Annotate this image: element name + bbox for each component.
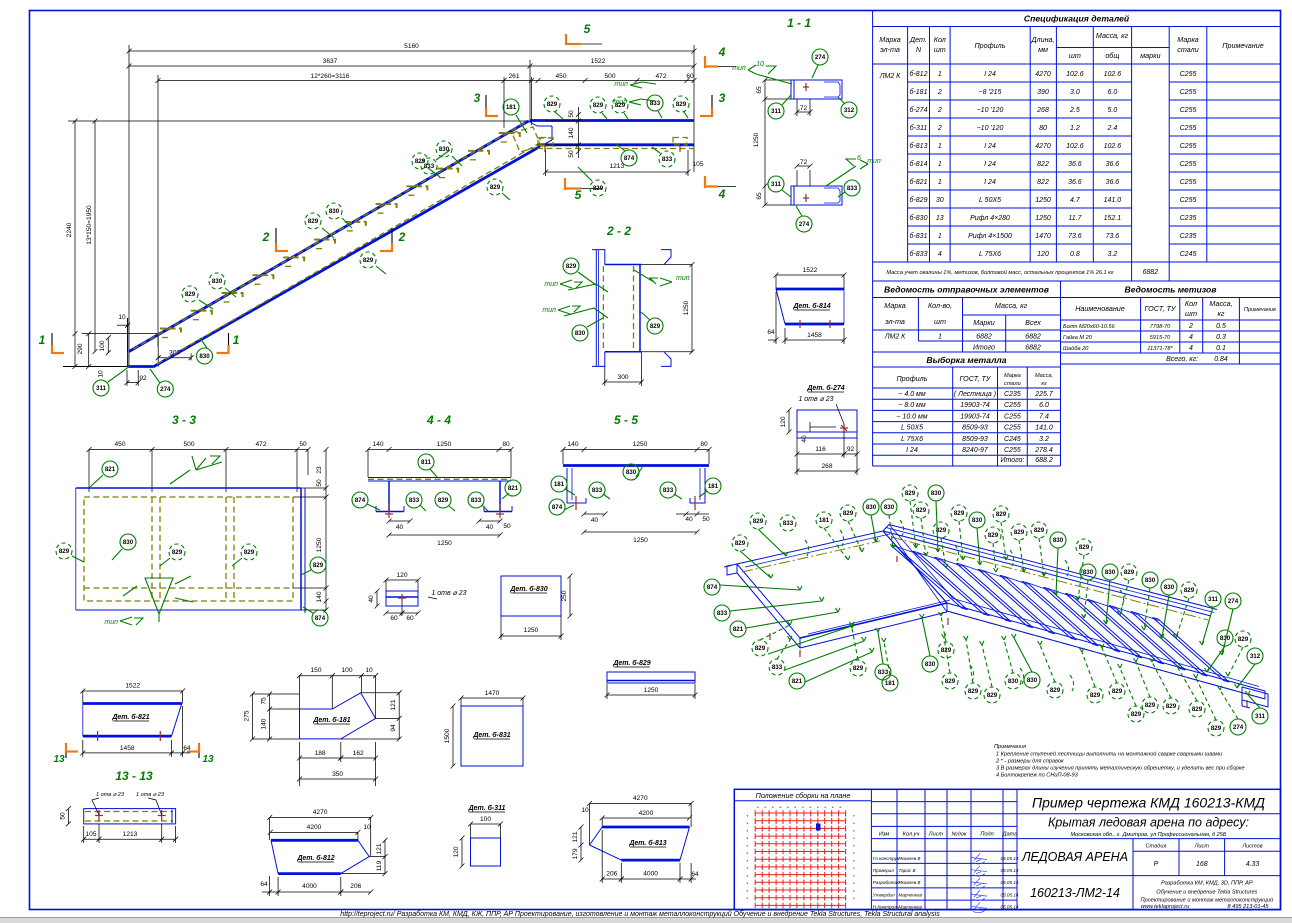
svg-text:829: 829	[438, 497, 449, 504]
title block right part: doc name	[1016, 789, 1018, 909]
svg-text:1250: 1250	[683, 300, 690, 315]
svg-text:829: 829	[676, 101, 687, 108]
svg-text:С255: С255	[1180, 107, 1197, 114]
svg-text:−10 ′120: −10 ′120	[977, 107, 1004, 114]
3d view detail circles	[704, 485, 1268, 736]
svg-text:829: 829	[987, 692, 998, 699]
svg-text:тип: тип	[867, 158, 881, 165]
svg-text:72: 72	[800, 105, 808, 112]
svg-text:3.0: 3.0	[1070, 89, 1080, 96]
detail b-311 plate	[453, 804, 506, 869]
svg-text:б-274: б-274	[910, 106, 928, 114]
svg-text:общ: общ	[1105, 51, 1119, 60]
svg-text:829: 829	[313, 562, 324, 569]
svg-text:60: 60	[686, 73, 694, 80]
b-821 section markers 13	[65, 743, 67, 758]
svg-text:40: 40	[368, 595, 375, 603]
svg-text:1250: 1250	[1035, 215, 1051, 222]
svg-text:4200: 4200	[639, 810, 654, 817]
svg-text:ЛМ2 К: ЛМ2 К	[884, 334, 906, 341]
svg-text:б-311: б-311	[910, 124, 928, 132]
svg-text:10: 10	[363, 824, 371, 831]
stair stringer top flange	[128, 121, 541, 367]
svg-text:2: 2	[262, 230, 270, 244]
svg-text:Изм: Изм	[879, 831, 890, 837]
svg-text:тип: тип	[614, 81, 628, 88]
svg-text:830: 830	[1027, 677, 1038, 684]
svg-text:833: 833	[409, 497, 420, 504]
stage-list mini table	[1132, 839, 1134, 876]
section 13-13	[59, 769, 178, 843]
svg-text:1522: 1522	[125, 683, 140, 690]
svg-text:Ведомость отправочных элементо: Ведомость отправочных элементов	[884, 285, 1049, 295]
svg-text:5.0: 5.0	[1108, 107, 1118, 114]
svg-text:2240: 2240	[66, 222, 73, 237]
svg-text:13: 13	[53, 754, 65, 765]
svg-text:50: 50	[299, 441, 307, 448]
svg-text:Тарас В: Тарас В	[899, 868, 916, 873]
svg-text:Примечания: Примечания	[994, 744, 1026, 750]
svg-text:Профиль: Профиль	[974, 41, 1005, 50]
landing dim 1213	[545, 150, 547, 176]
3d stair treads	[883, 525, 1229, 683]
svg-text:829: 829	[566, 263, 577, 270]
svg-text:Подп: Подп	[980, 831, 993, 837]
svg-text:марки: марки	[1140, 51, 1160, 60]
svg-text:Рифл 4×280: Рифл 4×280	[970, 215, 1010, 222]
svg-text:60: 60	[390, 615, 398, 622]
svg-text:833: 833	[471, 497, 482, 504]
svg-text:1: 1	[938, 161, 942, 168]
svg-text:1 отв ⌀ 23: 1 отв ⌀ 23	[431, 590, 466, 597]
svg-text:0.5: 0.5	[1216, 323, 1226, 330]
svg-text:1: 1	[938, 334, 942, 341]
svg-text:50: 50	[702, 516, 710, 523]
svg-text:40: 40	[486, 524, 494, 531]
svg-text:311: 311	[771, 108, 782, 115]
svg-text:75: 75	[261, 697, 268, 705]
section marker 1 left	[39, 22, 736, 354]
5-5 right channel	[690, 468, 705, 503]
detail b-813	[572, 795, 699, 883]
svg-text:эл-та: эл-та	[880, 45, 900, 54]
svg-text:С255: С255	[1004, 425, 1021, 432]
svg-text:268: 268	[821, 463, 832, 470]
svg-text:− 4.0 мм: − 4.0 мм	[898, 391, 926, 398]
3-3 circles	[102, 461, 118, 477]
svg-text:Ведомость метизов: Ведомость метизов	[1125, 285, 1217, 295]
svg-text:б-813: б-813	[910, 142, 928, 150]
svg-text:http://teproject.ru/ Разработ: http://teproject.ru/ Разработка КМ, КМД,…	[340, 910, 940, 918]
svg-text:С245: С245	[1180, 251, 1197, 258]
svg-text:833: 833	[663, 487, 674, 494]
svg-text:13: 13	[202, 754, 214, 765]
svg-text:102.6: 102.6	[1066, 71, 1084, 78]
stair stringer bottom flange	[153, 147, 540, 368]
svg-text:8240-97: 8240-97	[962, 447, 989, 454]
svg-text:Дет. б-821: Дет. б-821	[111, 713, 149, 721]
svg-text:830: 830	[575, 330, 586, 337]
table Выборка металла	[873, 352, 1061, 466]
svg-text:50: 50	[59, 812, 66, 820]
b-821 dims	[83, 752, 172, 754]
1-1 top bolt	[805, 83, 807, 91]
table Специфик. деталей frame	[873, 11, 1281, 282]
svg-text:2: 2	[398, 230, 406, 244]
svg-text:4270: 4270	[1035, 143, 1051, 150]
junction connection plate	[538, 138, 553, 146]
svg-text:Рифл 4×1500: Рифл 4×1500	[968, 233, 1012, 240]
svg-text:Московская обл., г. Дмитров, у: Московская обл., г. Дмитров, ул Професси…	[1070, 832, 1226, 838]
svg-text:811: 811	[421, 459, 432, 466]
svg-text:мм: мм	[1038, 45, 1048, 54]
svg-text:8 495 213-01-45: 8 495 213-01-45	[1227, 904, 1269, 910]
svg-text:Длина,: Длина,	[1030, 35, 1054, 44]
svg-text:829: 829	[843, 510, 854, 517]
svg-text:829: 829	[1166, 703, 1177, 710]
svg-text:141.0: 141.0	[1035, 425, 1053, 432]
svg-text:152.1: 152.1	[1104, 215, 1122, 222]
5-5 bottom dims	[584, 513, 605, 515]
svg-text:4270: 4270	[1035, 71, 1051, 78]
4-4 webs	[388, 481, 390, 511]
3d dashed leader curls	[805, 540, 809, 556]
svg-text:б-812: б-812	[910, 70, 928, 78]
svg-text:829: 829	[1112, 688, 1123, 695]
svg-text:829: 829	[753, 518, 764, 525]
svg-text:830: 830	[1083, 569, 1094, 576]
section 5-5 label	[549, 413, 721, 544]
svg-text:1 отв ⌀ 23: 1 отв ⌀ 23	[96, 792, 125, 798]
svg-text:833: 833	[878, 669, 889, 676]
svg-text:Всего, кг:: Всего, кг:	[1166, 356, 1198, 363]
svg-text:64: 64	[691, 871, 699, 878]
svg-text:13 - 13: 13 - 13	[115, 769, 153, 783]
b-274 dims	[788, 410, 790, 432]
b-812 right dims	[384, 840, 386, 873]
svg-text:2: 2	[937, 89, 942, 96]
svg-text:1470: 1470	[1035, 233, 1051, 240]
svg-text:874: 874	[355, 497, 366, 504]
svg-text:36.6: 36.6	[1068, 161, 1082, 168]
svg-text:50: 50	[503, 523, 511, 530]
svg-text:4000: 4000	[643, 871, 658, 878]
svg-text:1500: 1500	[444, 728, 451, 743]
svg-text:833: 833	[592, 487, 603, 494]
svg-text:8509-93: 8509-93	[962, 425, 988, 432]
spec table note row	[873, 261, 1281, 263]
svg-text:5915-70: 5915-70	[1150, 335, 1171, 341]
2-2 corner clips	[592, 250, 605, 265]
4-4 bottom dims	[389, 520, 410, 522]
svg-text:5: 5	[575, 188, 582, 202]
4-4 top flange	[368, 477, 511, 479]
svg-text:тип: тип	[542, 307, 556, 314]
svg-text:Шайба 20: Шайба 20	[1063, 345, 1089, 352]
svg-text:Проектирование и монтаж металл: Проектирование и монтаж металлоконструкц…	[1140, 897, 1273, 904]
assembly position red grid	[747, 807, 854, 908]
5-5 circles	[551, 476, 567, 492]
svg-text:274: 274	[1228, 598, 1239, 605]
svg-text:11.7: 11.7	[1068, 215, 1082, 222]
svg-text:стали: стали	[1177, 45, 1198, 54]
svg-text:73.6: 73.6	[1068, 233, 1082, 240]
b-181 bottom dims	[300, 757, 341, 759]
b-181 right dims	[398, 693, 400, 739]
svg-text:829: 829	[755, 645, 766, 652]
detail b-814	[767, 267, 846, 344]
svg-text:ГОСТ, ТУ: ГОСТ, ТУ	[960, 374, 992, 383]
2-2 beam outline	[605, 264, 642, 266]
svg-text:3 - 3: 3 - 3	[172, 413, 196, 427]
svg-text:822: 822	[1037, 179, 1049, 186]
svg-text:L 75X6: L 75X6	[979, 251, 1001, 258]
svg-text:Дата: Дата	[1002, 831, 1018, 837]
3d leader lines	[758, 529, 786, 556]
svg-text:С235: С235	[1180, 233, 1197, 240]
svg-text:141.0: 141.0	[1104, 197, 1122, 204]
svg-text:1 отв ⌀ 23: 1 отв ⌀ 23	[798, 396, 833, 403]
svg-text:829: 829	[735, 540, 746, 547]
detail b-821	[53, 683, 214, 766]
svg-text:874: 874	[707, 584, 718, 591]
3d center dashdot lines	[742, 541, 880, 572]
svg-text:390: 390	[1037, 89, 1049, 96]
svg-text:Гайка М 20: Гайка М 20	[1063, 334, 1093, 341]
main view top dimension 5160	[127, 43, 697, 367]
svg-text:Дет. б-812: Дет. б-812	[296, 854, 334, 862]
junction gusset plate dashed	[512, 127, 541, 152]
svg-text:830: 830	[866, 504, 877, 511]
svg-text:40: 40	[685, 516, 693, 523]
svg-text:261: 261	[508, 73, 519, 80]
svg-text:стали: стали	[1004, 381, 1021, 387]
svg-text:4.33: 4.33	[1246, 861, 1260, 868]
svg-text:4: 4	[938, 251, 942, 258]
svg-text:23: 23	[316, 466, 323, 474]
1-1 dims top	[764, 80, 766, 186]
landing hidden line	[537, 148, 694, 150]
svg-text:2.5: 2.5	[1069, 107, 1080, 114]
main view weld marks tip	[613, 81, 656, 106]
svg-text:822: 822	[1037, 161, 1049, 168]
svg-text:80: 80	[502, 441, 510, 448]
svg-text:Марченков: Марченков	[899, 905, 923, 910]
svg-text:10: 10	[581, 807, 589, 814]
svg-text:ГОСТ, ТУ: ГОСТ, ТУ	[1145, 304, 1177, 313]
title block Положение сборки header	[734, 800, 871, 802]
13-13 bolts	[98, 810, 100, 821]
svg-text:833: 833	[424, 163, 435, 170]
svg-text:829: 829	[363, 257, 374, 264]
svg-text:3.2: 3.2	[1108, 251, 1118, 258]
landing top flange	[512, 121, 694, 153]
tread step marks along stringer	[160, 133, 520, 338]
svg-text:б-181: б-181	[910, 88, 928, 96]
svg-text:6882: 6882	[976, 334, 992, 341]
2-2 hidden tread lines	[602, 266, 604, 351]
svg-text:1522: 1522	[803, 267, 818, 274]
svg-text:С255: С255	[1180, 179, 1197, 186]
svg-text:829: 829	[988, 532, 999, 539]
svg-text:L 75X6: L 75X6	[901, 436, 923, 443]
svg-text:181: 181	[885, 680, 896, 687]
svg-text:2: 2	[937, 125, 942, 132]
svg-text:Марка: Марка	[879, 35, 900, 44]
svg-text:179: 179	[572, 848, 579, 859]
dimension extension lines	[128, 45, 130, 367]
svg-text:500: 500	[183, 441, 194, 448]
svg-text:I 24: I 24	[984, 71, 996, 78]
svg-text:3 В размерах длины изучения п: 3 В размерах длины изучения принять мета…	[996, 766, 1245, 772]
svg-text:65: 65	[756, 192, 763, 200]
section 1-1 label	[732, 16, 881, 232]
svg-text:119: 119	[376, 860, 383, 871]
svg-text:472: 472	[255, 441, 266, 448]
svg-text:Положение сборки на плане: Положение сборки на плане	[756, 791, 851, 800]
3d stair upper stringer	[883, 525, 1265, 700]
svg-text:225.7: 225.7	[1034, 391, 1054, 398]
section 3-3 label	[56, 413, 329, 626]
b-181 left dims	[252, 694, 254, 739]
svg-text:100: 100	[480, 816, 491, 823]
5-5 top flange	[563, 464, 709, 467]
svg-text:120: 120	[1037, 251, 1049, 258]
svg-text:312: 312	[844, 107, 855, 114]
highlighted assembly blue mark	[816, 824, 821, 831]
3d small connection marks dark red	[769, 633, 771, 640]
svg-text:№док: №док	[952, 831, 967, 837]
svg-text:1250: 1250	[1035, 197, 1051, 204]
svg-text:830: 830	[439, 146, 450, 153]
svg-text:Яковлев В: Яковлев В	[898, 856, 921, 861]
svg-text:268: 268	[1036, 107, 1049, 114]
svg-text:274: 274	[1233, 724, 1244, 731]
left vertical dimension 13x150	[94, 121, 96, 352]
svg-text:4200: 4200	[307, 824, 322, 831]
svg-text:80: 80	[1039, 125, 1047, 132]
svg-text:( Лестница ): ( Лестница )	[954, 391, 996, 398]
svg-text:830: 830	[972, 517, 983, 524]
svg-text:472: 472	[655, 73, 666, 80]
svg-text:2: 2	[937, 107, 942, 114]
b-813 bottom dims	[602, 878, 621, 880]
b-814 bolt marks	[799, 320, 801, 328]
svg-text:102.6: 102.6	[1066, 143, 1084, 150]
svg-text:4 Болтокрепеж по СНиП-08-93: 4 Болтокрепеж по СНиП-08-93	[996, 773, 1079, 779]
svg-text:874: 874	[315, 615, 326, 622]
svg-text:2: 2	[1188, 323, 1193, 330]
title block frame	[734, 789, 1280, 912]
svg-text:275: 275	[244, 710, 251, 721]
svg-text:688.2: 688.2	[1035, 457, 1053, 464]
svg-text:821: 821	[508, 485, 519, 492]
svg-text:Дет.: Дет.	[909, 35, 927, 44]
svg-text:3.2: 3.2	[1039, 436, 1049, 443]
svg-text:Утвердил: Утвердил	[873, 892, 895, 897]
svg-text:833: 833	[772, 664, 783, 671]
svg-text:833: 833	[847, 185, 858, 192]
svg-text:I 24: I 24	[984, 179, 996, 186]
svg-text:311: 311	[771, 181, 782, 188]
svg-text:50: 50	[316, 479, 323, 487]
svg-text:829: 829	[244, 549, 255, 556]
svg-text:311: 311	[1255, 713, 1266, 720]
svg-text:92: 92	[139, 375, 147, 382]
svg-text:10: 10	[365, 667, 373, 674]
svg-text:Наименование: Наименование	[1075, 304, 1125, 313]
svg-text:Масса учет окалины 1%, метизов: Масса учет окалины 1%, метизов, болтовой…	[886, 269, 1113, 276]
svg-text:Дет. б-831: Дет. б-831	[472, 731, 510, 739]
svg-text:I 24: I 24	[984, 143, 996, 150]
svg-text:С255: С255	[1004, 402, 1021, 409]
svg-text:829: 829	[853, 665, 864, 672]
svg-text:1: 1	[39, 333, 46, 347]
svg-text:40: 40	[591, 517, 599, 524]
svg-text:Стадия: Стадия	[1146, 844, 1167, 850]
svg-text:830: 830	[199, 353, 210, 360]
svg-text:1: 1	[938, 233, 942, 240]
svg-text:ЛЕДОВАЯ АРЕНА: ЛЕДОВАЯ АРЕНА	[1021, 850, 1128, 864]
svg-text:5 - 5: 5 - 5	[614, 413, 638, 427]
support column line	[127, 318, 129, 367]
3d bottom foot piece	[770, 556, 1268, 708]
svg-text:05.05.14: 05.05.14	[1001, 892, 1019, 897]
svg-text:4.7: 4.7	[1070, 197, 1081, 204]
svg-text:36.6: 36.6	[1106, 179, 1120, 186]
svg-text:Марка: Марка	[1004, 373, 1021, 379]
svg-text:274: 274	[799, 221, 810, 228]
svg-text:311: 311	[1208, 596, 1219, 603]
3-3 weld triangle symbol	[123, 576, 193, 622]
detail b-830 plate	[499, 574, 573, 641]
svg-text:11371-78*: 11371-78*	[1147, 346, 1173, 352]
svg-text:ЛМ2 К: ЛМ2 К	[879, 73, 901, 80]
svg-text:4 - 4: 4 - 4	[426, 413, 451, 427]
svg-text:829: 829	[547, 101, 558, 108]
svg-text:Кол: Кол	[934, 35, 946, 44]
svg-text:64: 64	[260, 881, 268, 888]
svg-text:−10 ′120: −10 ′120	[977, 125, 1004, 132]
dimension tread row 12x260	[158, 80, 694, 82]
landing small dims 50-140-50	[543, 107, 704, 176]
svg-text:830: 830	[925, 661, 936, 668]
svg-text:4000: 4000	[302, 883, 317, 890]
svg-text:б-831: б-831	[910, 232, 928, 240]
table Ведомость отправочных элементов	[873, 281, 1061, 352]
2-2 circles	[563, 258, 579, 274]
3d platform thickness edges	[736, 564, 738, 573]
svg-text:Гл.конструк: Гл.конструк	[873, 856, 900, 861]
svg-text:С255: С255	[1180, 143, 1197, 150]
landing detail circles	[503, 99, 519, 115]
svg-text:7.4: 7.4	[1039, 413, 1049, 420]
svg-text:б-821: б-821	[910, 178, 928, 186]
svg-text:6: 6	[857, 155, 861, 162]
13-13 dims	[67, 809, 69, 824]
svg-text:Кол.уч: Кол.уч	[903, 831, 920, 837]
svg-text:Всех: Всех	[1025, 318, 1041, 327]
svg-text:829: 829	[308, 218, 319, 225]
svg-text:10: 10	[756, 61, 764, 68]
svg-text:121: 121	[572, 831, 579, 842]
3d top chord cross braces	[897, 547, 919, 555]
section marker 5 top	[565, 34, 567, 45]
svg-text:4270: 4270	[313, 809, 328, 816]
svg-text:94: 94	[390, 724, 397, 732]
svg-text:829: 829	[1090, 692, 1101, 699]
svg-text:160213-ЛМ2-14: 160213-ЛМ2-14	[1030, 886, 1120, 900]
